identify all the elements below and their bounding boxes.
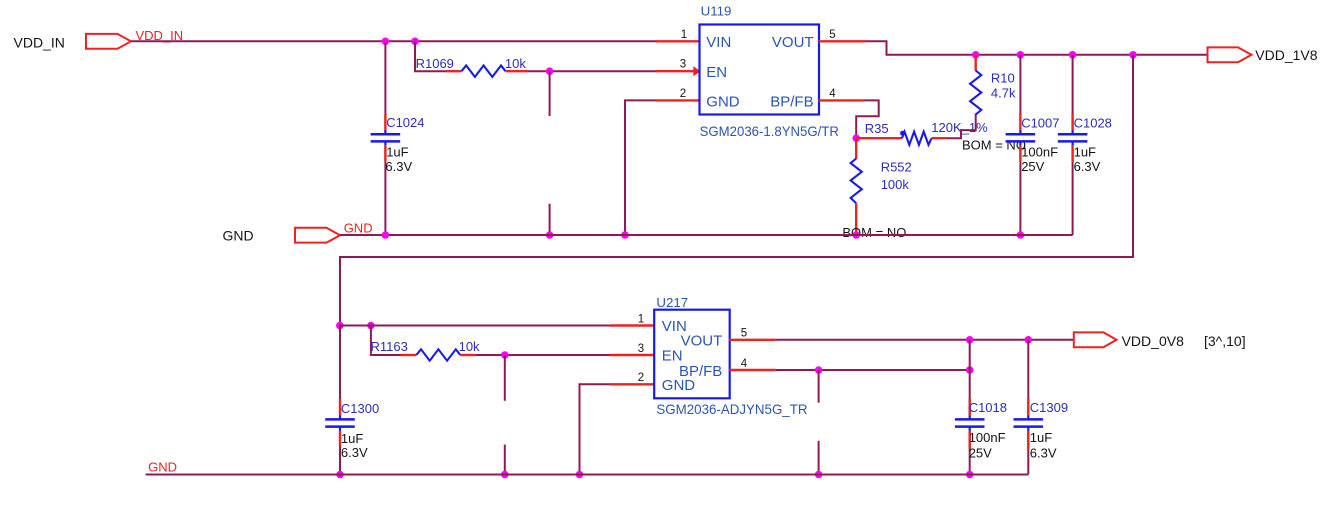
- junction on lower EN wire at dangling stub: [501, 351, 509, 359]
- label C1024: [386, 115, 424, 130]
- op-amp U119 regulator body: [700, 25, 820, 115]
- junction on BP/FB wire at dangling stub: [815, 366, 823, 374]
- junction on bottom ground rail below U217 pin 2: [576, 471, 584, 479]
- pin stub red below C1024: [384, 145, 386, 161]
- wire C1024 lower segment to GND rail: [384, 145, 386, 235]
- value 25V of C1007: [1021, 159, 1044, 174]
- resistor R1163 left red stub: [401, 354, 417, 356]
- svg-text:GND: GND: [706, 93, 740, 110]
- wire U217 BP/FB to C1018 column: [776, 369, 970, 371]
- capacitor C1028: [1058, 130, 1088, 145]
- svg-text:SGM2036-1.8YN5G/TR: SGM2036-1.8YN5G/TR: [700, 123, 839, 139]
- pin number 2 of U119: [680, 88, 686, 100]
- pin stub red above C1024: [384, 114, 386, 131]
- junction at C1018 on VDD_0V8 rail: [966, 336, 974, 344]
- value 6.3V of C1024: [385, 159, 412, 174]
- svg-text:6.3V: 6.3V: [1030, 445, 1057, 460]
- wire from lower VIN junction down to R1163: [371, 326, 402, 356]
- wire top ground rail: [340, 234, 1073, 236]
- pin stub red below C1007: [1019, 145, 1021, 161]
- note BOM = NO for R552: [842, 225, 906, 240]
- dangling wire below EN junction (upper): [549, 71, 551, 116]
- wire U119 BP/FB to divider node: [856, 100, 879, 138]
- net name VDD_IN (red) on wire: [136, 28, 184, 43]
- svg-text:R10: R10: [991, 70, 1015, 85]
- port VDD_IN: [86, 34, 131, 49]
- value 4.7k of R10: [991, 85, 1016, 100]
- note BOM = NO for R35: [962, 138, 1026, 153]
- pin 2 red stub of U119: [656, 99, 700, 101]
- svg-text:GND: GND: [148, 460, 177, 475]
- net name GND (red) on top ground rail: [344, 221, 373, 236]
- pin name BP/FB of U119: [770, 93, 813, 110]
- resistor R1069 left red stub: [446, 70, 462, 72]
- pin name EN of U217: [662, 348, 683, 365]
- svg-text:1: 1: [638, 313, 644, 325]
- resistor R552 top red stub: [855, 138, 857, 159]
- pin name VIN of U217: [662, 318, 687, 335]
- svg-text:VDD_IN: VDD_IN: [14, 34, 65, 50]
- dangling wire below lower EN junction (upper): [504, 355, 506, 401]
- value 6.3V of C1300: [341, 445, 368, 460]
- svg-text:VDD_1V8: VDD_1V8: [1255, 47, 1317, 63]
- pin 5 red stub of U119: [819, 40, 866, 42]
- pin stub red above C1309: [1027, 399, 1029, 416]
- svg-text:100k: 100k: [881, 177, 910, 192]
- junction at C1007 on VDD_1V8 rail: [1017, 51, 1025, 59]
- pin stub red below C1018: [969, 431, 971, 450]
- pin name VOUT of U119: [772, 34, 814, 51]
- label C1007: [1021, 115, 1059, 130]
- svg-text:10k: 10k: [505, 56, 526, 71]
- port VDD_1V8: [1208, 47, 1252, 62]
- pin name EN of U119: [706, 64, 727, 81]
- junction on GND rail below R552: [852, 231, 860, 239]
- label R1069: [416, 56, 454, 71]
- wire lower VIN run to U217 pin 1: [340, 325, 612, 327]
- svg-text:BOM = NO: BOM = NO: [962, 138, 1026, 153]
- part number SGM2036-1.8YN5G/TR: [700, 123, 839, 139]
- svg-text:BP/FB: BP/FB: [770, 93, 813, 110]
- resistor R35 left red stub: [856, 137, 902, 139]
- resistor R1069: [462, 66, 506, 77]
- junction at inter-section link on VDD_1V8 rail: [1129, 51, 1137, 59]
- svg-text:3: 3: [638, 343, 644, 355]
- svg-text:6.3V: 6.3V: [341, 445, 368, 460]
- port GND top: [295, 228, 340, 243]
- pin stub red above C1007: [1019, 114, 1021, 131]
- svg-text:25V: 25V: [969, 445, 992, 460]
- wire C1007 lower segment to GND rail: [1019, 145, 1021, 235]
- wire C1028 lower segment joining GND rail end: [1072, 145, 1074, 235]
- wire C1007 upper segment: [1019, 55, 1021, 131]
- wire C1300 lower segment to bottom ground rail: [339, 431, 341, 475]
- capacitor C1309: [1014, 416, 1044, 431]
- junction on bottom ground rail at C1018: [966, 471, 974, 479]
- pin number 4 of U217: [741, 358, 748, 370]
- op-amp U217 regulator body: [654, 310, 730, 399]
- label R552: [881, 160, 912, 175]
- pin number 4 of U119: [829, 88, 836, 100]
- svg-text:C1007: C1007: [1021, 115, 1059, 130]
- pin 4 red stub of U119: [819, 99, 864, 101]
- capacitor C1024: [371, 130, 401, 145]
- label R1163: [371, 339, 408, 354]
- wire VOUT of U217 to VDD_0V8 port: [776, 339, 1074, 341]
- resistor R552: [851, 159, 862, 204]
- pin 3 red stub of U119 with input arrow: [656, 66, 701, 76]
- pin name GND of U119: [706, 93, 740, 110]
- pin number 5 of U217: [741, 328, 747, 340]
- svg-text:GND: GND: [344, 221, 373, 236]
- value 1uF of C1024: [386, 145, 408, 160]
- pin number 2 of U217: [638, 372, 644, 384]
- pin 3 red stub of U217: [610, 354, 655, 356]
- pin 1 red stub of U217: [610, 324, 655, 326]
- sheet reference [3^,10]: [1204, 333, 1246, 349]
- value 6.3V of C1309: [1030, 445, 1057, 460]
- svg-text:VOUT: VOUT: [681, 333, 723, 350]
- resistor R35: [902, 132, 932, 145]
- svg-text:SGM2036-ADJYN5G_TR: SGM2036-ADJYN5G_TR: [656, 401, 807, 417]
- svg-text:2: 2: [638, 372, 644, 384]
- pin 4 red stub of U217: [729, 369, 776, 371]
- svg-text:5: 5: [741, 328, 747, 340]
- svg-text:C1309: C1309: [1030, 400, 1068, 415]
- label C1300: [341, 401, 379, 416]
- net label VDD_1V8 (black): [1255, 47, 1317, 63]
- svg-text:BOM = NO: BOM = NO: [842, 225, 906, 240]
- pin number 3 of U217: [638, 343, 644, 355]
- dangling wire above bottom ground rail below BP/FB (lower): [818, 441, 820, 475]
- svg-text:2: 2: [680, 88, 686, 100]
- junction at C1024 column on VDD_IN wire: [382, 38, 390, 46]
- svg-text:120K_1%: 120K_1%: [931, 120, 988, 135]
- svg-text:R552: R552: [881, 160, 912, 175]
- wire C1028 upper segment: [1072, 55, 1074, 131]
- pin number 1 of U119: [681, 29, 687, 41]
- value 25V of C1018: [969, 445, 992, 460]
- junction at R1069 branch on VDD_IN wire: [411, 38, 419, 46]
- junction on GND rail at C1007: [1017, 231, 1025, 239]
- label C1028: [1074, 115, 1112, 130]
- value 10k of R1069: [505, 56, 526, 71]
- resistor R1163: [416, 349, 460, 360]
- svg-text:VOUT: VOUT: [772, 34, 814, 51]
- svg-text:U217: U217: [656, 295, 688, 310]
- wire C1309 lower segment joining bottom ground rail end: [1027, 431, 1029, 475]
- svg-text:C1028: C1028: [1074, 115, 1112, 130]
- wire R1069 to U119 EN pin: [528, 70, 658, 72]
- wire C1300 upper segment: [339, 326, 341, 416]
- pin number 3 of U119: [680, 59, 686, 71]
- svg-text:C1300: C1300: [341, 401, 379, 416]
- wire from VDD_IN junction down to R1069: [415, 41, 447, 71]
- value 120K_1% of R35: [931, 120, 988, 135]
- dangling wire above GND rail (lower): [549, 204, 551, 235]
- wire link VDD_1V8 rail down and across to lower section: [340, 55, 1133, 326]
- wire VOUT of U119 to VDD_1V8 port: [865, 41, 1209, 55]
- net label VDD_0V8 (black): [1122, 333, 1184, 349]
- resistor R1069 right red stub: [506, 70, 529, 72]
- value 100k of R552: [881, 177, 910, 192]
- part number SGM2036-ADJYN5G_TR: [656, 401, 807, 417]
- net label GND top (black): [223, 227, 254, 243]
- net name GND (red) on bottom ground rail: [148, 460, 177, 475]
- svg-text:100nF: 100nF: [969, 430, 1006, 445]
- node divider junction R35/R552: [852, 134, 860, 142]
- pin number 5 of U119: [829, 29, 835, 41]
- svg-text:1uF: 1uF: [386, 145, 408, 160]
- pin stub red above C1300: [339, 399, 341, 416]
- junction on GND rail at C1024: [382, 231, 390, 239]
- junction on bottom ground rail below BP/FB stub: [815, 471, 823, 479]
- reference designator U217: [656, 295, 688, 310]
- value 1uF of C1028: [1074, 145, 1096, 160]
- svg-text:25V: 25V: [1021, 159, 1044, 174]
- pin stub red above R10: [975, 55, 977, 71]
- wire C1309 upper segment: [1027, 340, 1029, 416]
- svg-text:4: 4: [829, 88, 836, 100]
- wire U217 GND pin 2 to bottom ground rail: [580, 384, 610, 474]
- value 6.3V of C1028: [1074, 159, 1101, 174]
- value 1uF of C1309: [1030, 430, 1052, 445]
- svg-text:[3^,10]: [3^,10]: [1204, 333, 1246, 349]
- wire R1163 to U217 EN pin: [475, 354, 612, 356]
- svg-text:4: 4: [741, 358, 748, 370]
- svg-text:VIN: VIN: [706, 34, 731, 51]
- wire C1018 upper segment: [969, 340, 971, 416]
- svg-text:VDD_0V8: VDD_0V8: [1122, 333, 1184, 349]
- wire VDD_IN from port to U119 pin 1: [131, 40, 658, 42]
- junction on EN wire at dangling stub: [546, 67, 554, 75]
- value 10k of R1163: [459, 339, 480, 354]
- junction on GND rail below U119 pin 2: [621, 231, 629, 239]
- junction on bottom ground rail below EN stub: [501, 471, 509, 479]
- pin stub red below C1309: [1027, 431, 1029, 450]
- svg-text:R1163: R1163: [371, 339, 408, 354]
- value 1uF of C1300: [341, 431, 363, 446]
- svg-text:1: 1: [681, 29, 687, 41]
- svg-text:6.3V: 6.3V: [385, 159, 412, 174]
- wire U119 GND pin 2 to ground rail: [625, 100, 656, 235]
- pin stub red below C1300: [339, 431, 341, 447]
- pin name VIN of U119: [706, 34, 731, 51]
- junction at R1163 branch on lower VIN wire: [367, 322, 375, 330]
- svg-text:R35: R35: [865, 121, 889, 136]
- svg-text:4.7k: 4.7k: [991, 85, 1016, 100]
- junction at C1300 column on lower VIN wire: [336, 322, 344, 330]
- svg-text:1uF: 1uF: [1030, 430, 1052, 445]
- port VDD_0V8: [1074, 332, 1117, 347]
- svg-text:1uF: 1uF: [341, 431, 363, 446]
- dangling wire above bottom ground rail (lower): [504, 445, 506, 475]
- resistor R35 right red stub: [932, 137, 946, 139]
- label C1309: [1030, 400, 1068, 415]
- capacitor C1300: [325, 416, 355, 431]
- svg-text:EN: EN: [706, 64, 727, 81]
- svg-text:5: 5: [829, 29, 835, 41]
- resistor R10: [970, 71, 981, 115]
- junction at R10 on VDD_1V8 rail: [972, 51, 980, 59]
- wire C1024 upper segment: [384, 41, 386, 130]
- resistor R1163 right red stub: [460, 354, 475, 356]
- label C1018: [969, 400, 1007, 415]
- pin name VOUT of U217: [681, 333, 723, 350]
- pin stub red above C1028: [1071, 114, 1073, 131]
- dangling wire below BP/FB junction (upper): [818, 370, 820, 403]
- svg-text:C1018: C1018: [969, 400, 1007, 415]
- svg-text:R1069: R1069: [416, 56, 454, 71]
- junction at C1028 on VDD_1V8 rail: [1069, 51, 1077, 59]
- svg-text:GND: GND: [662, 377, 696, 394]
- svg-text:GND: GND: [223, 227, 254, 243]
- svg-text:100nF: 100nF: [1021, 145, 1058, 160]
- svg-text:3: 3: [680, 59, 686, 71]
- pin 5 red stub of U217: [729, 339, 776, 341]
- wire bottom ground rail: [146, 474, 1029, 476]
- capacitor C1007: [1006, 130, 1036, 145]
- label R35: [865, 121, 889, 136]
- svg-text:1uF: 1uF: [1074, 145, 1096, 160]
- value 100nF of C1018: [969, 430, 1006, 445]
- pin name BP/FB of U217: [679, 363, 722, 380]
- junction on GND rail below EN stub: [546, 231, 554, 239]
- junction at C1309 on VDD_0V8 rail: [1025, 336, 1033, 344]
- value 100nF of C1007: [1021, 145, 1058, 160]
- svg-text:10k: 10k: [459, 339, 480, 354]
- pin 2 red stub of U217: [610, 383, 655, 385]
- pin 1 red stub of U119: [656, 40, 700, 42]
- svg-text:C1024: C1024: [386, 115, 424, 130]
- net label VDD_IN (black, off-sheet name): [14, 34, 65, 50]
- resistor R35 pin-1 dot: [900, 131, 905, 136]
- capacitor C1018: [955, 416, 985, 431]
- reference designator U119: [701, 3, 732, 18]
- wire C1018 lower segment to bottom ground rail: [969, 431, 971, 475]
- svg-text:6.3V: 6.3V: [1074, 159, 1101, 174]
- label R10: [991, 70, 1015, 85]
- pin name GND of U217: [662, 377, 696, 394]
- resistor R552 bottom red stub: [855, 203, 857, 235]
- junction BP/FB meets C1018 column: [966, 366, 974, 374]
- wire jog R35 to R10 bottom: [945, 114, 975, 139]
- junction on bottom ground rail at C1300: [336, 471, 344, 479]
- pin stub red below C1028: [1071, 145, 1073, 161]
- pin number 1 of U217: [638, 313, 644, 325]
- svg-text:U119: U119: [701, 3, 732, 18]
- pin stub red above C1018: [969, 399, 971, 416]
